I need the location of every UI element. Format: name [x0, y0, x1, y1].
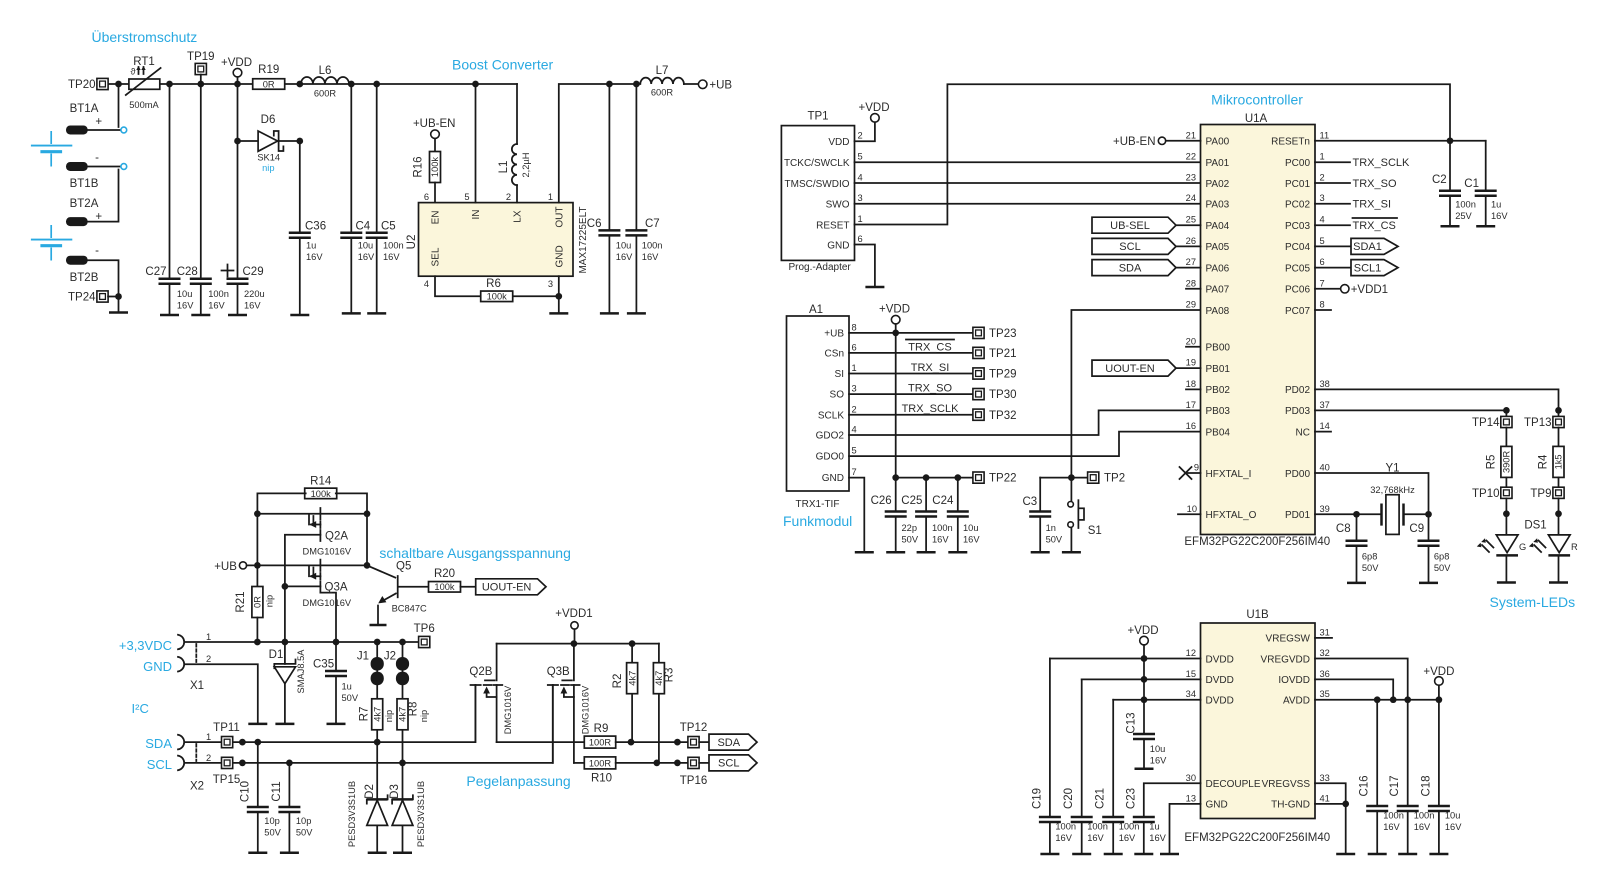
- wire VREGVSS pin 33: [1315, 783, 1346, 804]
- svg-text:16V: 16V: [1087, 833, 1104, 843]
- svg-text:33: 33: [1320, 773, 1330, 783]
- svg-text:PESD3V3S1UB: PESD3V3S1UB: [416, 781, 426, 847]
- svg-text:26: 26: [1186, 236, 1196, 246]
- svg-text:SDA: SDA: [145, 736, 172, 751]
- svg-text:16V: 16V: [1445, 822, 1462, 832]
- svg-text:16V: 16V: [1150, 756, 1167, 766]
- testpoint TP20: [68, 78, 108, 91]
- svg-text:+3,3VDC: +3,3VDC: [119, 638, 172, 653]
- ground at TP24: [109, 297, 128, 313]
- power +UB node at switch: [214, 561, 367, 576]
- ground at C24: [948, 551, 967, 554]
- svg-text:VREGSW: VREGSW: [1266, 634, 1311, 645]
- ground at C35: [327, 723, 346, 726]
- svg-text:10p: 10p: [264, 816, 280, 826]
- resistor R9 100R: [497, 723, 688, 748]
- svg-text:PB02: PB02: [1206, 385, 1231, 396]
- svg-text:SI: SI: [835, 369, 844, 380]
- svg-text:TRX_CS: TRX_CS: [908, 342, 951, 354]
- ground at C8: [1347, 582, 1366, 585]
- wire VREGVDD pin 32: [1315, 659, 1408, 700]
- testpoint TP32: [973, 409, 1017, 422]
- svg-text:16V: 16V: [306, 252, 323, 262]
- svg-text:Mikrocontroller: Mikrocontroller: [1211, 92, 1303, 108]
- svg-text:1: 1: [1320, 152, 1325, 162]
- svg-text:SK14: SK14: [257, 153, 280, 163]
- svg-text:U1A: U1A: [1245, 113, 1268, 125]
- op-amp U2 MAX17225ELT boost IC body: [406, 203, 589, 277]
- svg-text:C26: C26: [871, 495, 892, 507]
- svg-text:4: 4: [1320, 215, 1325, 225]
- svg-text:2,2µH: 2,2µH: [521, 153, 531, 178]
- svg-text:16V: 16V: [358, 252, 375, 262]
- svg-text:1: 1: [852, 363, 857, 373]
- svg-text:C10: C10: [239, 781, 251, 802]
- inductor L7 600R: [640, 65, 684, 98]
- resistor R21 0R nip: [235, 565, 275, 642]
- svg-text:I²C: I²C: [132, 701, 149, 716]
- power +VDD1 node: [555, 608, 592, 644]
- svg-text:600R: 600R: [651, 88, 674, 98]
- svg-text:TH-GND: TH-GND: [1271, 800, 1310, 811]
- svg-text:19: 19: [1186, 358, 1196, 368]
- connector X2 pin 1 SDA: [145, 685, 475, 751]
- ground at C26: [886, 551, 905, 554]
- ground at C4: [342, 312, 361, 315]
- capacitor C5 100n 16V: [366, 84, 404, 313]
- svg-text:NC: NC: [1296, 427, 1310, 438]
- connector X2 pin 2 SCL: [147, 685, 553, 772]
- net label TRX_CS at PC03 with overline: [1315, 218, 1397, 232]
- svg-text:5: 5: [852, 446, 857, 456]
- pin numbers U1A right: [1320, 130, 1330, 514]
- svg-text:6: 6: [858, 234, 863, 244]
- svg-text:10u: 10u: [616, 241, 632, 251]
- svg-text:16V: 16V: [177, 301, 194, 311]
- pin stub HFXTAL_I with cross: [1180, 467, 1201, 479]
- section label Mikrocontroller: [1211, 92, 1303, 108]
- svg-text:TRX_SI: TRX_SI: [1353, 199, 1392, 211]
- capacitor C4 10u 16V: [340, 84, 375, 313]
- svg-text:nip: nip: [419, 710, 429, 722]
- svg-text:SEL: SEL: [431, 247, 442, 266]
- capacitor C9 6p8 50V: [1409, 514, 1451, 583]
- ground at A1 GND: [855, 551, 874, 554]
- ground at C11: [280, 852, 299, 855]
- testpoint TP9: [1530, 487, 1564, 535]
- wire A1 +UB row to TP23: [849, 332, 973, 334]
- ground at C7: [627, 312, 646, 315]
- svg-text:SO: SO: [830, 390, 845, 401]
- svg-text:L7: L7: [656, 65, 669, 77]
- svg-text:TP20: TP20: [68, 79, 96, 91]
- battery terminal BT1A: [66, 103, 120, 135]
- svg-text:16V: 16V: [642, 252, 659, 262]
- svg-text:4k7: 4k7: [627, 671, 637, 686]
- svg-text:Überstromschutz: Überstromschutz: [92, 28, 198, 45]
- battery terminal BT1B: [66, 152, 120, 190]
- svg-text:C17: C17: [1389, 775, 1401, 796]
- svg-text:C18: C18: [1420, 775, 1432, 796]
- svg-text:PA05: PA05: [1206, 242, 1230, 253]
- ground at green LED: [1497, 581, 1516, 584]
- svg-text:34: 34: [1186, 689, 1196, 699]
- power +VDD node at A1: [879, 304, 910, 478]
- svg-text:RESET: RESET: [816, 220, 849, 231]
- svg-text:TP13: TP13: [1524, 417, 1552, 429]
- svg-text:5: 5: [858, 152, 863, 162]
- svg-text:C29: C29: [243, 266, 264, 278]
- svg-text:3: 3: [852, 384, 857, 394]
- svg-text:PB01: PB01: [1206, 364, 1231, 375]
- svg-text:SDA: SDA: [717, 737, 740, 749]
- svg-text:System-LEDs: System-LEDs: [1490, 594, 1576, 610]
- svg-text:Y1: Y1: [1385, 463, 1399, 475]
- ground at D3: [393, 852, 412, 855]
- svg-text:TP30: TP30: [989, 389, 1017, 401]
- svg-text:J1: J1: [357, 651, 369, 663]
- wire DECOUPLE pin 30 to C23: [1144, 783, 1201, 817]
- svg-text:TP11: TP11: [213, 722, 240, 734]
- svg-text:DVDD: DVDD: [1206, 675, 1234, 686]
- svg-text:DMG1016V: DMG1016V: [503, 685, 513, 734]
- module A1 TRX1-TIF body: [787, 304, 857, 510]
- svg-text:nip: nip: [384, 710, 394, 722]
- testpoint TP16: [680, 757, 709, 787]
- svg-text:R4: R4: [1538, 454, 1550, 469]
- svg-text:X1: X1: [190, 680, 204, 692]
- svg-text:12: 12: [1186, 648, 1196, 658]
- svg-text:27: 27: [1186, 257, 1196, 267]
- svg-text:+VDD1: +VDD1: [555, 608, 592, 620]
- section label Funkmodul: [783, 513, 852, 529]
- svg-text:C28: C28: [177, 266, 198, 278]
- battery cell symbol 2: [31, 225, 72, 261]
- wire A1 SI row to TP29: [849, 373, 973, 375]
- svg-text:R14: R14: [310, 476, 332, 488]
- svg-text:2: 2: [206, 654, 211, 664]
- svg-text:600R: 600R: [314, 89, 337, 99]
- svg-text:HFXTAL_O: HFXTAL_O: [1206, 510, 1257, 521]
- svg-text:HFXTAL_I: HFXTAL_I: [1206, 469, 1252, 480]
- svg-text:DVDD: DVDD: [1206, 696, 1234, 707]
- svg-text:4: 4: [852, 425, 857, 435]
- svg-text:VDD: VDD: [828, 137, 849, 148]
- svg-text:GND: GND: [827, 240, 849, 251]
- svg-text:50V: 50V: [1046, 535, 1063, 545]
- svg-text:23: 23: [1186, 173, 1196, 183]
- svg-text:C1: C1: [1464, 178, 1479, 190]
- svg-text:13: 13: [1186, 793, 1196, 803]
- svg-text:R8: R8: [408, 702, 420, 717]
- svg-text:10: 10: [1187, 504, 1197, 514]
- svg-text:IOVDD: IOVDD: [1278, 675, 1310, 686]
- diode D3 PESD3V3S1UB: [389, 763, 426, 853]
- ground at C16: [1368, 853, 1387, 856]
- testpoint TP23: [973, 327, 1017, 340]
- svg-text:TP29: TP29: [989, 369, 1017, 381]
- capacitor C7 100n 16V: [625, 84, 662, 313]
- svg-text:SCLK: SCLK: [818, 410, 844, 421]
- svg-text:CSn: CSn: [825, 349, 844, 360]
- wire GDO2 to PB03: [849, 410, 1201, 435]
- pin stub PC07: [1315, 309, 1331, 311]
- svg-text:5: 5: [1320, 236, 1325, 246]
- connector circle BT1B minus: [88, 164, 127, 222]
- wire PD02 to red LED chain: [1315, 389, 1559, 410]
- capacitor C29 220u 16V polarized: [222, 84, 265, 315]
- svg-text:TCKC/SWCLK: TCKC/SWCLK: [784, 158, 850, 169]
- svg-text:PA07: PA07: [1206, 285, 1230, 296]
- svg-text:GND: GND: [1206, 800, 1228, 811]
- net flag SDA1 at PC04: [1315, 238, 1398, 254]
- capacitor C19 100n 16V: [1031, 659, 1076, 855]
- ground at C18: [1429, 853, 1448, 856]
- svg-text:0R: 0R: [263, 79, 275, 89]
- svg-text:32,768kHz: 32,768kHz: [1370, 485, 1415, 495]
- node dots on SDA row: [239, 739, 381, 746]
- svg-text:17: 17: [1186, 400, 1196, 410]
- pin stub NC: [1315, 431, 1331, 433]
- svg-text:6: 6: [424, 192, 429, 202]
- led DS1 red: [1524, 520, 1578, 583]
- svg-text:D1: D1: [269, 649, 284, 661]
- power +UB-EN node at PA00: [1113, 136, 1201, 148]
- wire DVDD pin 12 row: [1050, 658, 1201, 660]
- svg-text:C4: C4: [356, 221, 371, 233]
- connector TP1 Prog.-Adapter body: [781, 111, 862, 274]
- svg-text:MAX17225ELT: MAX17225ELT: [578, 206, 589, 273]
- wire U2 IN riser pin 5: [464, 84, 475, 203]
- svg-text:C25: C25: [901, 495, 922, 507]
- svg-text:PD00: PD00: [1285, 469, 1310, 480]
- svg-text:TRX_CS: TRX_CS: [1353, 220, 1396, 232]
- resistor R8 4k7 nip: [397, 699, 429, 763]
- svg-text:30: 30: [1186, 773, 1196, 783]
- switch S1 pushbutton: [1068, 478, 1102, 553]
- svg-text:EN: EN: [431, 211, 442, 225]
- svg-text:40: 40: [1320, 463, 1330, 473]
- svg-text:R9: R9: [594, 723, 609, 735]
- svg-text:6p8: 6p8: [1434, 552, 1450, 562]
- svg-text:8: 8: [1320, 300, 1325, 310]
- svg-text:UOUT-EN: UOUT-EN: [482, 582, 532, 594]
- svg-text:R7: R7: [359, 707, 371, 722]
- svg-text:100n: 100n: [1455, 200, 1476, 210]
- net flag UOUT-EN at Q5: [476, 579, 546, 595]
- svg-text:OUT: OUT: [555, 207, 566, 228]
- svg-text:6: 6: [1320, 257, 1325, 267]
- svg-text:25: 25: [1186, 215, 1196, 225]
- svg-text:1n: 1n: [1046, 523, 1056, 533]
- svg-text:SDA1: SDA1: [1353, 241, 1382, 253]
- svg-text:+: +: [95, 116, 102, 128]
- svg-text:R19: R19: [258, 64, 279, 76]
- svg-text:C23: C23: [1125, 788, 1137, 809]
- resistor R14 100k: [305, 476, 337, 499]
- svg-text:SCL: SCL: [718, 758, 739, 770]
- testpoint TP14: [1472, 410, 1512, 429]
- transistor Q3A DMG1016V pmos: [303, 560, 371, 642]
- node junction dots on input rail: [115, 81, 479, 88]
- svg-text:4: 4: [858, 172, 863, 182]
- svg-text:R10: R10: [591, 773, 612, 785]
- diode D6 SK14 schottky: [234, 114, 303, 173]
- svg-text:C8: C8: [1336, 523, 1351, 535]
- svg-text:16: 16: [1186, 421, 1196, 431]
- svg-text:TP22: TP22: [989, 473, 1017, 485]
- svg-text:22: 22: [1186, 152, 1196, 162]
- svg-text:PESD3V3S1UB: PESD3V3S1UB: [347, 781, 357, 847]
- ic U1A part number label: [1184, 536, 1330, 548]
- svg-text:3: 3: [548, 279, 553, 289]
- svg-text:1: 1: [206, 632, 211, 642]
- testpoint TP24: [68, 291, 122, 304]
- svg-text:PB00: PB00: [1206, 343, 1231, 354]
- svg-text:Pegelanpassung: Pegelanpassung: [466, 773, 570, 789]
- svg-text:DECOUPLE: DECOUPLE: [1206, 779, 1261, 790]
- testpoint TP22: [973, 472, 1017, 485]
- svg-text:50V: 50V: [1434, 563, 1451, 573]
- svg-text:9: 9: [1194, 463, 1199, 473]
- capacitor C18 10u 16V: [1420, 700, 1462, 854]
- ic U1A EFM32PG22 body: [1201, 113, 1316, 535]
- svg-text:18: 18: [1186, 379, 1196, 389]
- svg-text:C20: C20: [1063, 788, 1075, 809]
- net flag SCL at PA05: [1092, 238, 1201, 254]
- svg-text:100n: 100n: [932, 523, 953, 533]
- svg-text:4: 4: [424, 279, 429, 289]
- svg-text:C13: C13: [1126, 712, 1138, 733]
- svg-text:TMSC/SWDIO: TMSC/SWDIO: [785, 179, 850, 190]
- svg-text:500mA: 500mA: [129, 100, 159, 110]
- svg-text:PC03: PC03: [1285, 221, 1310, 232]
- svg-text:R6: R6: [486, 278, 501, 290]
- wire +VDD1 rail of level shifter: [497, 640, 659, 647]
- ic U1B body: [1201, 609, 1316, 819]
- svg-text:16V: 16V: [1414, 822, 1431, 832]
- svg-text:20: 20: [1186, 336, 1196, 346]
- capacitor C21 100n 16V: [1095, 700, 1140, 854]
- svg-text:PC06: PC06: [1285, 285, 1310, 296]
- svg-text:VREGVDD: VREGVDD: [1261, 654, 1310, 665]
- svg-text:4k7: 4k7: [654, 671, 664, 686]
- connector X2 group line: [190, 744, 204, 793]
- svg-text:PC01: PC01: [1285, 179, 1310, 190]
- ground at red LED: [1549, 581, 1568, 584]
- svg-text:38: 38: [1320, 379, 1330, 389]
- svg-text:+VDD: +VDD: [1128, 625, 1159, 637]
- net label TRX_CS with overline: [906, 340, 954, 354]
- net label TRX_SCLK: [902, 403, 960, 415]
- testpoint TP15: [213, 757, 241, 786]
- testpoint TP21: [973, 347, 1017, 360]
- ground at C23: [1134, 853, 1153, 856]
- svg-text:1k5: 1k5: [1554, 454, 1564, 469]
- svg-text:GDO2: GDO2: [816, 431, 845, 442]
- testpoint TP12: [680, 722, 709, 748]
- svg-text:1u: 1u: [342, 682, 352, 692]
- svg-text:IN: IN: [471, 210, 482, 220]
- wire A1 SCLK row to TP32: [849, 414, 973, 416]
- svg-text:100R: 100R: [589, 758, 612, 768]
- svg-text:GND: GND: [555, 245, 566, 267]
- resistor R4 1k5: [1538, 428, 1565, 488]
- svg-text:SCL: SCL: [1119, 241, 1140, 253]
- svg-text:+UB: +UB: [214, 561, 237, 573]
- wire DVDD pin 34 row: [1113, 699, 1200, 701]
- capacitor C13 10u 16V: [1126, 700, 1168, 769]
- svg-text:+UB: +UB: [824, 329, 844, 340]
- net flag UOUT-EN at PB01: [1092, 360, 1201, 376]
- ground at C13: [1135, 768, 1154, 771]
- ground at TH-GND: [1336, 853, 1355, 856]
- capacitor C24 10u 16V: [932, 478, 980, 553]
- capacitor C6 10u 16V: [587, 84, 633, 313]
- net label TRX_SO: [908, 383, 952, 395]
- transistor Q2A DMG1016V pmos: [257, 508, 367, 557]
- svg-text:TP19: TP19: [187, 51, 215, 63]
- ground at C36: [290, 314, 309, 317]
- section label I2C: [132, 701, 149, 716]
- svg-text:1: 1: [858, 214, 863, 224]
- crystal Y1 32.768kHz: [1370, 463, 1415, 535]
- svg-text:2: 2: [858, 131, 863, 141]
- svg-text:28: 28: [1186, 278, 1196, 288]
- svg-text:C6: C6: [587, 218, 602, 230]
- testpoint TP30: [973, 389, 1017, 402]
- ground at Q5 emitter: [370, 624, 387, 627]
- svg-text:DS1: DS1: [1524, 520, 1546, 532]
- svg-text:BT1A: BT1A: [70, 103, 99, 115]
- wire TMSC/SWDIO to PA02: [855, 182, 1201, 184]
- svg-text:C35: C35: [313, 659, 334, 671]
- net flag SDA at PA06: [1092, 260, 1201, 276]
- wire decoupling rail at A1: [892, 474, 972, 481]
- capacitor C8 6p8 50V: [1336, 514, 1379, 583]
- capacitor C3 1n 50V: [1023, 478, 1063, 553]
- svg-text:36: 36: [1320, 669, 1330, 679]
- svg-text:R21: R21: [235, 591, 247, 612]
- resistor R16 100k: [413, 152, 441, 203]
- svg-text:BT1B: BT1B: [70, 178, 99, 190]
- pin numbers U1A left: [1186, 130, 1199, 514]
- svg-text:39: 39: [1320, 504, 1330, 514]
- svg-text:VREGVSS: VREGVSS: [1262, 779, 1311, 790]
- svg-text:TP1: TP1: [807, 111, 828, 123]
- svg-text:Boost Converter: Boost Converter: [452, 57, 553, 73]
- svg-text:UOUT-EN: UOUT-EN: [1105, 363, 1155, 375]
- svg-text:10u: 10u: [1150, 744, 1166, 754]
- svg-text:100k: 100k: [311, 489, 332, 499]
- svg-text:S1: S1: [1088, 525, 1102, 537]
- svg-text:C36: C36: [305, 221, 326, 233]
- svg-text:100k: 100k: [434, 582, 455, 592]
- svg-text:C11: C11: [271, 781, 283, 801]
- ground at C25: [917, 551, 936, 554]
- inductor L1 2.2uH: [498, 144, 531, 203]
- svg-text:TP6: TP6: [414, 623, 435, 635]
- svg-text:R16: R16: [413, 156, 425, 177]
- capacitor C26 22p 50V: [871, 478, 919, 553]
- wire U2 OUT riser pin 1 and output rail: [548, 84, 637, 203]
- svg-text:Q3A: Q3A: [325, 582, 348, 594]
- svg-text:10u: 10u: [1445, 811, 1461, 821]
- svg-text:EFM32PG22C200F256IM40: EFM32PG22C200F256IM40: [1184, 536, 1330, 548]
- capacitor C35 1u 50V: [313, 642, 359, 724]
- svg-text:100k: 100k: [487, 292, 508, 302]
- svg-text:EFM32PG22C200F256IM40: EFM32PG22C200F256IM40: [1184, 832, 1330, 844]
